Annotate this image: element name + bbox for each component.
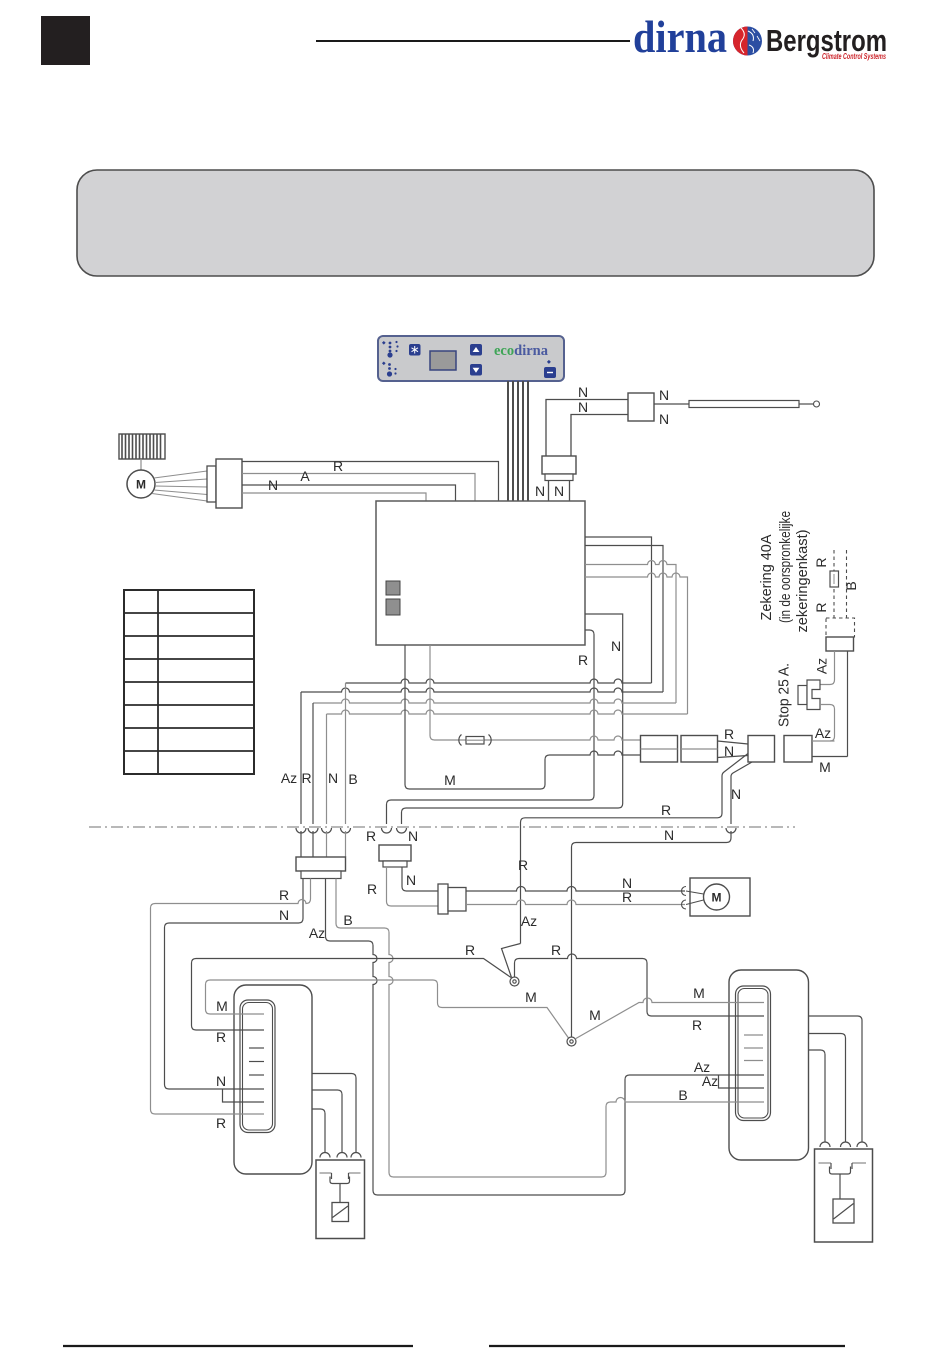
vertical wire Az — [300, 692, 302, 824]
wire N from X4 to E1 — [165, 879, 304, 1090]
blower connector X3 — [207, 466, 216, 502]
svg-text:N: N — [724, 743, 734, 759]
svg-text:Climate Control Systems: Climate Control Systems — [822, 52, 886, 61]
svg-text:R: R — [367, 881, 377, 897]
svg-text:Stop 25 A.: Stop 25 A. — [777, 663, 793, 727]
up button — [470, 344, 482, 356]
wire M from K3 — [812, 756, 848, 758]
relay K5 cups — [820, 1142, 867, 1147]
bus wire 2 (Az) — [301, 688, 663, 692]
thermo switch S2 contact — [567, 1037, 576, 1046]
connector box pair K1 left — [641, 736, 678, 763]
wire blower top — [242, 462, 499, 502]
wire R blower — [242, 474, 475, 502]
cab harness connector X4 — [296, 857, 346, 871]
footer rule left — [63, 1345, 413, 1347]
svg-text:N: N — [216, 1073, 226, 1089]
svg-text:R: R — [692, 1017, 702, 1033]
wire R to condenser fan motor — [466, 900, 685, 905]
svg-text:R: R — [279, 887, 289, 903]
wires Az R N B into lower connector — [301, 831, 346, 857]
inline connector X6 — [438, 884, 448, 914]
wire Az from K3 — [812, 740, 835, 742]
ECU right wire 1 — [585, 537, 652, 683]
wire R S1 to E2 — [515, 954, 765, 1016]
svg-text:A: A — [300, 468, 310, 484]
wire N to thermostat (upper) — [546, 400, 628, 457]
cup connector B at barrier — [341, 828, 351, 833]
heater unit E2 (right) outer shell — [729, 970, 809, 1160]
svg-text:R: R — [518, 857, 528, 873]
E1 pin jumper N — [223, 1089, 265, 1102]
small diamond marker — [547, 360, 551, 364]
condenser fan motor M2 — [704, 884, 730, 910]
svg-text:R: R — [622, 889, 632, 905]
fan relay connector X5 — [379, 845, 411, 861]
svg-text:R: R — [301, 770, 311, 786]
svg-text:R: R — [216, 1029, 226, 1045]
wire N X5 to inline connector — [402, 867, 438, 891]
minus button — [544, 367, 556, 378]
svg-text:M: M — [693, 985, 705, 1001]
relay K4 contact — [320, 1172, 361, 1174]
blower motor M1 — [127, 470, 155, 498]
E2 pin jumper Az — [719, 1075, 765, 1088]
inline fuse F3 symbol — [459, 735, 491, 746]
inline fuse wire from ECU — [430, 645, 641, 740]
svg-text:Zekering 40A: Zekering 40A — [759, 534, 775, 620]
svg-text:R: R — [578, 652, 588, 668]
svg-text:Az: Az — [521, 913, 537, 929]
svg-text:ecodirna: ecodirna — [494, 343, 549, 359]
panel wire harness bundle — [508, 381, 528, 501]
svg-text:N: N — [554, 483, 564, 499]
svg-text:N: N — [279, 907, 289, 923]
ECU right wire 3 — [585, 561, 676, 704]
ECU right wire 4 — [585, 573, 688, 714]
wire blade fuse to Az — [820, 705, 835, 742]
svg-text:N: N — [268, 477, 278, 493]
wire N below barrier to heater feed — [572, 831, 732, 1037]
svg-text:N: N — [406, 872, 416, 888]
evaporator unit E1 (left) outer shell — [234, 985, 312, 1174]
relay K4 box — [316, 1160, 365, 1239]
svg-text:M: M — [444, 772, 456, 788]
svg-text:N: N — [664, 827, 674, 843]
svg-text:N: N — [535, 483, 545, 499]
fuse element 40A — [830, 571, 839, 587]
svg-text:R: R — [465, 942, 475, 958]
svg-text:R: R — [661, 802, 671, 818]
fuse holder body — [826, 637, 854, 651]
bus wire 1 (B) — [346, 679, 652, 683]
svg-text:R: R — [724, 726, 734, 742]
wire N stub — [569, 481, 571, 502]
svg-text:N: N — [408, 828, 418, 844]
wire R from X4 to E1 (lower) — [151, 879, 311, 1115]
svg-text:M: M — [216, 998, 228, 1014]
control unit A1 (ECU) — [376, 501, 585, 645]
wire resistor to motor — [140, 459, 142, 470]
vertical wire R — [312, 703, 314, 824]
relay K5 coil — [833, 1199, 854, 1223]
svg-text:zekeringenkast): zekeringenkast) — [795, 530, 811, 633]
svg-text:Az: Az — [815, 725, 831, 741]
svg-text:N: N — [328, 770, 338, 786]
vertical wire N — [326, 714, 328, 824]
cup connector Az at barrier — [296, 828, 306, 833]
svg-text:M: M — [589, 1007, 601, 1023]
ECU relay square 2 — [386, 599, 400, 615]
header rule — [316, 40, 630, 42]
wire N to condenser fan motor — [466, 887, 685, 892]
wire M S2 to E2 — [575, 998, 764, 1039]
thermostat capillary probe — [654, 401, 820, 408]
svg-text:R: R — [813, 557, 829, 567]
ECU right wire 2 — [585, 546, 663, 693]
svg-text:R: R — [813, 602, 829, 612]
wire A blower — [242, 485, 456, 501]
dirna globe icon — [733, 27, 762, 56]
page corner black square — [41, 16, 90, 65]
svg-text:Az: Az — [281, 770, 297, 786]
wire R from K2 down to switches — [521, 754, 749, 944]
wire N blower — [242, 493, 426, 501]
cup connector at M2 R — [682, 900, 687, 909]
wire R box2 to box3 — [718, 741, 749, 744]
svg-text:dirna: dirna — [633, 11, 727, 62]
wire R from ECU to fan relay box — [387, 630, 595, 824]
M2 internal leads — [686, 891, 704, 905]
ECU relay square 1 — [386, 581, 400, 595]
cup connector N at barrier — [322, 828, 332, 833]
pressure switch S1 contact — [510, 977, 519, 986]
svg-text:(in de oorspronkelijke: (in de oorspronkelijke — [778, 511, 794, 623]
wire M E1 to thermo switch S2 — [206, 980, 569, 1038]
wire fuse holder to blade fuse — [820, 651, 835, 685]
snowflake button — [409, 344, 421, 356]
svg-text:N: N — [611, 638, 621, 654]
wire M from ECU — [405, 645, 641, 789]
vertical wire B — [345, 683, 347, 824]
wire N from ECU to fan relay box — [402, 614, 623, 824]
motor fan-out wires — [152, 471, 207, 501]
relay K5 contact — [819, 1162, 867, 1164]
compressor clutch box K3 — [784, 736, 812, 763]
switch S1 blade from R/Az feed — [502, 944, 521, 978]
wire B from X4 to E2 — [336, 879, 764, 1178]
E2 spare pin ticks — [744, 1035, 763, 1061]
svg-text:Az: Az — [309, 925, 325, 941]
thermometer icon lower — [382, 361, 397, 376]
blade fuse Stop 25A symbol — [798, 680, 820, 710]
svg-text:N: N — [659, 387, 669, 403]
E2 right exits to relay K5 — [808, 1016, 862, 1142]
fuse holder (dashed) Zekering 40A — [826, 550, 855, 637]
cup connector N fan at barrier — [397, 828, 407, 833]
svg-text:N: N — [659, 411, 669, 427]
cup connector at M2 N — [682, 887, 687, 896]
wire N stub — [548, 481, 550, 502]
relay K4 coil — [332, 1203, 349, 1222]
wire Az from X4 to E2 — [326, 879, 765, 1196]
footer rule right — [489, 1345, 845, 1347]
svg-text:B: B — [843, 581, 859, 590]
svg-text:Az: Az — [702, 1073, 718, 1089]
down button — [470, 364, 482, 376]
svg-text:N: N — [578, 384, 588, 400]
wire M fuse holder down — [847, 651, 849, 757]
svg-text:B: B — [678, 1087, 687, 1103]
E1 right exits to relay K4 — [312, 1074, 356, 1153]
bus wire 3 (R) — [313, 699, 676, 703]
pin-out table (legend, empty) — [124, 590, 254, 774]
relay K4 cups — [320, 1153, 361, 1158]
connector box pair K1 right — [681, 736, 718, 763]
cup connector R fan at barrier — [382, 828, 392, 833]
cup connector on N at barrier — [726, 828, 736, 833]
svg-text:R: R — [216, 1115, 226, 1131]
svg-text:M: M — [819, 759, 831, 775]
chassis barrier line (dash-dot) — [89, 826, 795, 828]
svg-text:B: B — [343, 912, 352, 928]
wire R X5 to inline connector — [387, 867, 439, 906]
condenser fan motor M2 box — [690, 878, 750, 916]
blower resistor pack R1 (hatched) — [119, 434, 165, 459]
svg-text:M: M — [136, 478, 146, 492]
E1 spare pin ticks — [249, 1048, 264, 1075]
wire N from K2 down across barrier — [731, 762, 752, 824]
svg-text:Az: Az — [814, 658, 830, 674]
cup connector R at barrier — [308, 828, 318, 833]
wire N box2 to box3 — [718, 756, 749, 758]
wire R E1 to pressure switch S1 — [192, 959, 512, 1031]
svg-text:M: M — [712, 891, 722, 905]
svg-text:B: B — [348, 771, 357, 787]
thermometer icon upper — [382, 341, 399, 358]
wire N to thermostat (lower) — [571, 415, 628, 457]
display window — [430, 351, 456, 370]
svg-text:M: M — [525, 989, 537, 1005]
svg-text:R: R — [366, 828, 376, 844]
note box (empty rounded) — [77, 170, 874, 276]
panel sensor connector X2 — [542, 456, 576, 474]
E2 connector strip (double border) — [736, 986, 771, 1121]
thermostat TH1 body — [628, 393, 654, 421]
svg-text:N: N — [578, 399, 588, 415]
svg-text:R: R — [333, 458, 343, 474]
E1 connector strip (double border) — [240, 1000, 275, 1133]
control panel U1 (ecodirna) — [378, 336, 564, 381]
relay feed box K2 — [748, 736, 775, 763]
bus wire 4 (N) — [327, 710, 688, 714]
svg-text:N: N — [731, 786, 741, 802]
svg-text:R: R — [551, 942, 561, 958]
relay K5 box — [815, 1149, 873, 1242]
